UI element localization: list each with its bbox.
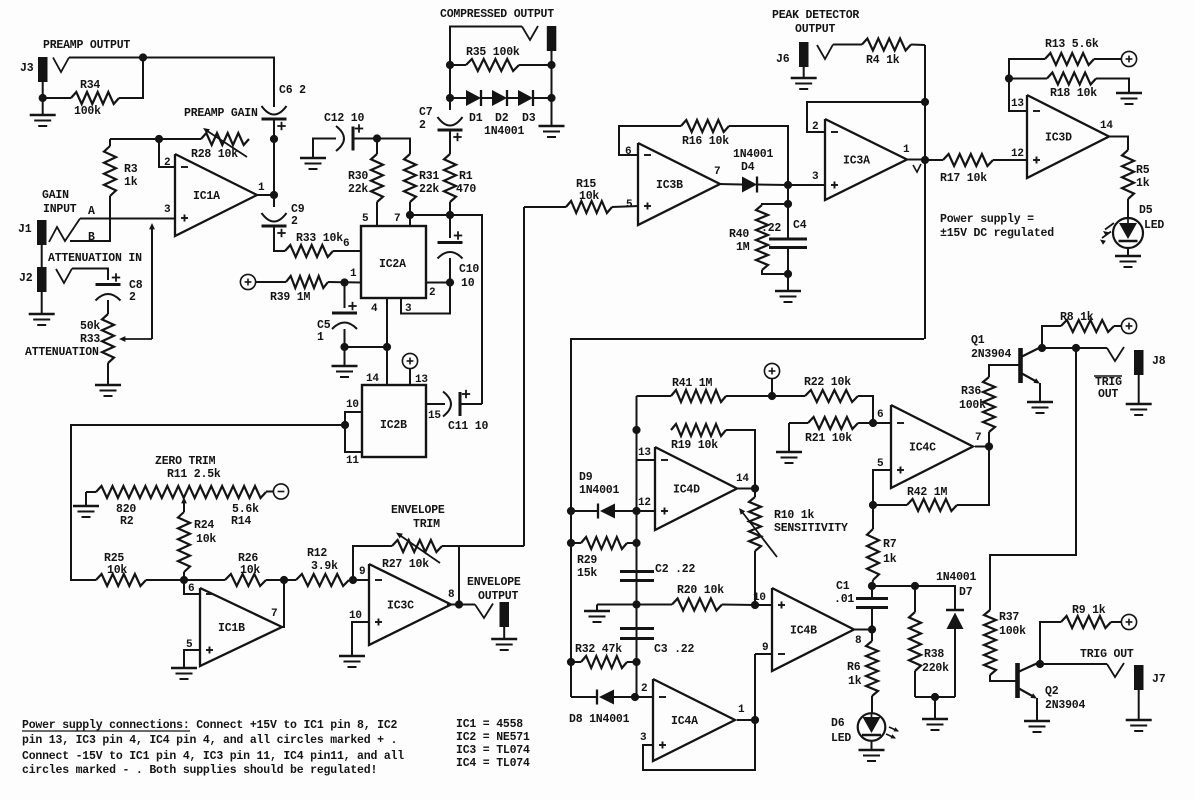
resistor R20 bbox=[637, 604, 673, 606]
svg-text:C6 2: C6 2 bbox=[279, 84, 306, 97]
svg-text:R10 1k: R10 1k bbox=[774, 509, 815, 522]
ground below C5 bbox=[344, 347, 346, 366]
svg-text:1: 1 bbox=[258, 182, 265, 194]
ground at C12 bbox=[300, 157, 326, 160]
diode D4 bbox=[742, 177, 757, 193]
svg-text:R41 1M: R41 1M bbox=[672, 377, 713, 390]
wire IC4B pin 9 stub bbox=[755, 653, 772, 655]
junction R35 left bbox=[446, 61, 454, 69]
svg-text:1N4001: 1N4001 bbox=[484, 125, 525, 138]
capacitor C8 bbox=[112, 277, 120, 279]
junction C12/R30 bbox=[373, 134, 381, 142]
wire C5 to ground node bbox=[344, 329, 346, 347]
svg-text:3: 3 bbox=[405, 303, 412, 315]
svg-text:R21 10k: R21 10k bbox=[805, 432, 852, 445]
wire C5 node to pin4 riser bbox=[345, 346, 388, 348]
svg-text:9: 9 bbox=[359, 566, 365, 578]
svg-text:1: 1 bbox=[317, 331, 324, 344]
svg-text:1k: 1k bbox=[1136, 177, 1150, 190]
plug contact at J2 bbox=[56, 269, 72, 284]
resistor R31 bbox=[404, 154, 416, 202]
jack envelope output bbox=[500, 602, 510, 627]
plug contact at J3 bbox=[53, 58, 69, 73]
junction R21/R22/pin6 bbox=[869, 419, 877, 427]
svg-text:±15V DC regulated: ±15V DC regulated bbox=[940, 227, 1054, 240]
resistor R34 bbox=[71, 92, 119, 104]
svg-text:1N4001: 1N4001 bbox=[579, 484, 620, 497]
svg-text:15k: 15k bbox=[577, 567, 597, 580]
svg-text:R7: R7 bbox=[883, 538, 897, 551]
svg-text:TRIG OUT: TRIG OUT bbox=[1080, 648, 1134, 661]
junction feedback/R4 bbox=[921, 98, 929, 106]
svg-text:R20 10k: R20 10k bbox=[677, 584, 724, 597]
svg-text:IC3A: IC3A bbox=[843, 155, 870, 168]
wire IC1B pin 5 to ground bbox=[184, 650, 200, 668]
svg-text:D6: D6 bbox=[831, 717, 845, 730]
wire IC4D pin13 stub bbox=[637, 459, 656, 461]
junction IC1A output bbox=[270, 191, 278, 199]
op-amp IC3A bbox=[825, 119, 907, 200]
resistor R37 bbox=[984, 610, 996, 675]
wire R33 to ground bbox=[107, 363, 109, 385]
svg-text:J8: J8 bbox=[1152, 355, 1166, 368]
svg-text:PREAMP OUTPUT: PREAMP OUTPUT bbox=[43, 39, 130, 52]
svg-text:5: 5 bbox=[877, 458, 884, 470]
svg-text:LED: LED bbox=[831, 732, 851, 745]
wire IC4C output bbox=[975, 446, 989, 448]
capacitor C3 bbox=[620, 627, 654, 630]
jack J2 bbox=[37, 267, 47, 292]
svg-text:R24: R24 bbox=[194, 519, 214, 532]
wire R3 bottom to B input bbox=[70, 196, 110, 241]
resistor R32 bbox=[581, 656, 627, 668]
svg-text:R39 1M: R39 1M bbox=[270, 291, 311, 304]
capacitor C1 bbox=[856, 597, 888, 600]
svg-text:ZERO TRIM: ZERO TRIM bbox=[155, 455, 216, 468]
power circle at R39 bbox=[240, 274, 255, 289]
svg-text:R1: R1 bbox=[459, 170, 473, 183]
svg-text:OUT: OUT bbox=[1098, 388, 1118, 401]
junction R3/R28/pin2 bbox=[155, 135, 163, 143]
diode D7 bbox=[946, 609, 964, 612]
svg-text:IC1 = 4558: IC1 = 4558 bbox=[456, 718, 523, 731]
wire J3 stem to R34 node bbox=[42, 82, 44, 98]
svg-text:10k: 10k bbox=[579, 190, 599, 203]
svg-text:7: 7 bbox=[394, 213, 400, 225]
potentiometer R33 50k bbox=[102, 314, 114, 363]
wire trig out 2 bbox=[1040, 663, 1107, 665]
svg-text:14: 14 bbox=[366, 373, 379, 385]
resistor R19 bbox=[671, 424, 726, 436]
svg-text:5: 5 bbox=[626, 199, 633, 211]
svg-text:IC1A: IC1A bbox=[193, 190, 220, 203]
wire R21 to ground bbox=[788, 423, 790, 452]
wire J1 to J2 bbox=[41, 245, 43, 267]
wire IC2B pin 11 loop bbox=[345, 425, 362, 452]
wire to envelope output jack bbox=[459, 604, 475, 606]
wire IC3D output bbox=[1109, 137, 1128, 151]
wire C1 node to D7 bbox=[872, 586, 955, 610]
svg-text:IC4D: IC4D bbox=[673, 484, 700, 497]
wire R33b to IC2A pin 6 bbox=[333, 250, 361, 252]
wire Q2 collector node bbox=[1039, 662, 1041, 664]
junction R24/R25/R26/pin6 bbox=[180, 576, 188, 584]
wire peak rail horizontal bbox=[571, 339, 924, 697]
svg-text:R33 10k: R33 10k bbox=[296, 232, 343, 245]
junction R38 top bbox=[911, 582, 919, 590]
wire IC4C pin5 loop bbox=[873, 470, 891, 505]
svg-text:IC3D: IC3D bbox=[1045, 132, 1072, 145]
junction D8 / IC4A pin2 bbox=[631, 693, 639, 701]
svg-text:A: A bbox=[88, 205, 95, 218]
junction trig riser bbox=[1072, 344, 1080, 352]
wire R1 bottom bbox=[449, 202, 451, 215]
svg-text:D5: D5 bbox=[1139, 204, 1153, 217]
svg-text:R2: R2 bbox=[120, 515, 134, 528]
wire IC4A output stub bbox=[737, 719, 755, 721]
junction pins 10/11 bbox=[341, 421, 349, 429]
resistor R5 bbox=[1122, 150, 1134, 199]
svg-text:PREAMP GAIN: PREAMP GAIN bbox=[184, 107, 258, 120]
wire D4 node to IC3A pin 3 bbox=[788, 184, 825, 186]
light arrows at D6 bbox=[886, 734, 895, 738]
wire IC2A pin 4 to IC2B pin 14 bbox=[386, 298, 388, 385]
svg-text:3: 3 bbox=[640, 732, 647, 744]
wire envelope node riser bbox=[523, 207, 525, 546]
resistor R15 bbox=[524, 206, 566, 208]
svg-text:470: 470 bbox=[456, 183, 476, 196]
wire R30 to IC2A pin 5 bbox=[376, 202, 378, 226]
svg-text:10: 10 bbox=[753, 592, 766, 604]
svg-text:R29: R29 bbox=[577, 554, 597, 567]
svg-text:C7: C7 bbox=[419, 106, 433, 119]
resistor R7 bbox=[872, 505, 874, 529]
svg-text:J1: J1 bbox=[18, 223, 32, 236]
svg-text:8: 8 bbox=[448, 589, 455, 601]
svg-text:1: 1 bbox=[903, 144, 910, 156]
resistor R12 bbox=[284, 579, 296, 581]
wire IC2A pin 3 loop bbox=[401, 283, 450, 314]
ground below R38/D7 bbox=[934, 697, 936, 719]
svg-text:R11 2.5k: R11 2.5k bbox=[167, 468, 221, 481]
jack J3 bbox=[38, 57, 48, 82]
svg-text:R19 10k: R19 10k bbox=[671, 439, 718, 452]
svg-text:R6: R6 bbox=[847, 661, 861, 674]
ground below J2 bbox=[29, 313, 55, 316]
resistor R39 bbox=[286, 276, 328, 288]
svg-text:15: 15 bbox=[428, 410, 441, 422]
wire left column vertical bbox=[636, 396, 638, 697]
ground at IC1B pin5 bbox=[171, 667, 197, 670]
plug contact compressed output bbox=[522, 26, 538, 40]
svg-text:13: 13 bbox=[415, 374, 428, 386]
svg-text:10k: 10k bbox=[107, 564, 127, 577]
wire C10 to pin2 node bbox=[449, 258, 451, 283]
wire input A to IC1A pin 3 bbox=[80, 218, 175, 220]
junction diode string right bbox=[547, 94, 555, 102]
ground below J8 bbox=[1126, 403, 1152, 406]
svg-text:Connect -15V to IC1 pin 4, IC3: Connect -15V to IC1 pin 4, IC3 pin 11, I… bbox=[22, 750, 404, 763]
junction Q2 collector bbox=[1036, 660, 1044, 668]
svg-text:220k: 220k bbox=[922, 662, 949, 675]
resistor R35 bbox=[466, 59, 519, 71]
svg-text:IC3C: IC3C bbox=[387, 600, 414, 613]
resistor R26 bbox=[184, 579, 225, 581]
junction Q1 collector bbox=[1038, 344, 1046, 352]
wire R30 top bbox=[376, 139, 378, 155]
svg-text:R42 1M: R42 1M bbox=[907, 486, 948, 499]
wire preamp output rail bbox=[69, 58, 274, 108]
transistor Q2 2N3904 bbox=[1015, 663, 1020, 698]
junction IC4A output bbox=[751, 716, 759, 724]
wire R10 to pin10 node bbox=[754, 551, 756, 605]
junction pin2/C10 bbox=[446, 278, 454, 286]
svg-text:R8 1k: R8 1k bbox=[1060, 311, 1094, 324]
svg-text:50k: 50k bbox=[80, 320, 100, 333]
svg-text:9: 9 bbox=[762, 642, 768, 654]
wire IC3A output node bbox=[908, 159, 925, 161]
svg-text:.22: .22 bbox=[761, 222, 781, 235]
wire IC3C output bbox=[447, 604, 459, 606]
svg-text:1k: 1k bbox=[848, 675, 862, 688]
svg-text:R31: R31 bbox=[419, 170, 439, 183]
svg-text:C1: C1 bbox=[836, 580, 850, 593]
svg-text:100k: 100k bbox=[74, 105, 101, 118]
svg-text:Power supply =: Power supply = bbox=[940, 213, 1034, 226]
svg-text:10k: 10k bbox=[240, 564, 260, 577]
resistor R38 bbox=[914, 586, 916, 612]
svg-text:J2: J2 bbox=[19, 272, 33, 285]
capacitor C12 bbox=[355, 128, 363, 130]
svg-text:ATTENUATION IN: ATTENUATION IN bbox=[48, 252, 142, 265]
power circle at R13 bbox=[1121, 51, 1136, 66]
svg-text:2: 2 bbox=[129, 291, 136, 304]
LED D6 bbox=[858, 713, 886, 741]
svg-text:Q1: Q1 bbox=[971, 334, 985, 347]
svg-text:IC4 = TL074: IC4 = TL074 bbox=[456, 757, 530, 770]
svg-text:PEAK DETECTOR: PEAK DETECTOR bbox=[772, 9, 859, 22]
resistor R17 bbox=[925, 159, 943, 161]
wire IC4D pin12 stub bbox=[637, 510, 656, 512]
op-amp IC3C bbox=[369, 564, 451, 645]
svg-text:OUTPUT: OUTPUT bbox=[478, 590, 519, 603]
plug contact at J1 bbox=[49, 219, 80, 243]
resistor R40 bbox=[762, 204, 788, 205]
svg-text:IC2B: IC2B bbox=[380, 419, 407, 432]
svg-text:R38: R38 bbox=[924, 648, 944, 661]
diode D2 bbox=[481, 97, 492, 99]
wire C8 to R33 pot bbox=[107, 300, 109, 314]
wire feedback to IC1B input rail bbox=[71, 425, 345, 580]
junction R38/D7 ground bbox=[931, 693, 939, 701]
light arrows at D5 bbox=[1105, 223, 1114, 230]
svg-text:R37: R37 bbox=[999, 611, 1019, 624]
svg-text:1: 1 bbox=[738, 704, 745, 716]
ground below Q1 bbox=[1027, 401, 1053, 404]
capacitor C9 bbox=[262, 213, 287, 222]
wire IC3B output to D4 bbox=[719, 183, 742, 186]
ground below Q2 bbox=[1024, 720, 1050, 723]
wire R28 left to node bbox=[159, 138, 201, 140]
svg-text:22k: 22k bbox=[419, 183, 439, 196]
svg-text:14: 14 bbox=[736, 473, 749, 485]
wire IC2A pin 2 bbox=[426, 282, 450, 284]
minus circle at R11 bbox=[273, 484, 288, 499]
wire IC3D pin13 loop bbox=[1009, 59, 1045, 111]
wire D6 to ground bbox=[871, 741, 873, 751]
resistor R16 bbox=[681, 120, 729, 132]
potentiometer R28 bbox=[201, 133, 249, 145]
svg-text:TRIM: TRIM bbox=[413, 518, 440, 531]
svg-text:1: 1 bbox=[350, 268, 357, 280]
svg-text:R9 1k: R9 1k bbox=[1072, 604, 1106, 617]
junction D9 right bbox=[632, 507, 640, 515]
resistor R42 bbox=[873, 504, 907, 506]
op-amp IC3D bbox=[1027, 95, 1109, 178]
wire C6 to node A1 bbox=[273, 119, 275, 139]
svg-text:IC2A: IC2A bbox=[379, 258, 406, 271]
svg-text:2: 2 bbox=[641, 683, 647, 695]
wire J8 to ground bbox=[1138, 375, 1140, 404]
junction J3/R34 bbox=[39, 94, 47, 102]
svg-text:C3 .22: C3 .22 bbox=[654, 643, 695, 656]
junction R42/R7/pin5 bbox=[869, 501, 877, 509]
plug contact at J7 bbox=[1107, 663, 1124, 677]
ground below R18 bbox=[1116, 92, 1142, 95]
resistor R29 bbox=[581, 537, 627, 549]
svg-text:1k: 1k bbox=[124, 176, 138, 189]
wire IC4D output bbox=[737, 488, 755, 490]
resistor R9 bbox=[1040, 622, 1061, 664]
op-amp IC1B bbox=[200, 588, 282, 666]
junction R29 right bbox=[632, 539, 640, 547]
LED D5 bbox=[1113, 218, 1143, 248]
svg-text:R22 10k: R22 10k bbox=[804, 376, 851, 389]
wire IC1B output loop bbox=[281, 580, 284, 627]
power circle at IC2B pin 13 bbox=[402, 353, 417, 368]
svg-text:Q2: Q2 bbox=[1045, 685, 1059, 698]
resistor R3 bbox=[104, 146, 116, 196]
svg-text:IC1B: IC1B bbox=[218, 622, 245, 635]
diode D1 bbox=[450, 97, 466, 99]
capacitor C4 bbox=[787, 204, 789, 239]
svg-text:R13 5.6k: R13 5.6k bbox=[1045, 38, 1099, 51]
svg-text:1N4001: 1N4001 bbox=[936, 571, 977, 584]
svg-text:IC2 = NE571: IC2 = NE571 bbox=[456, 731, 530, 744]
junction C3 bottom rail bbox=[632, 658, 640, 666]
junction R32 left bbox=[567, 658, 575, 666]
ground below compressed output jack bbox=[539, 125, 565, 128]
wire pin 13 bbox=[409, 368, 411, 385]
junction R20/pin10 bbox=[751, 601, 759, 609]
wire J2 contact to C8 bbox=[72, 269, 108, 281]
svg-text:3: 3 bbox=[164, 204, 171, 216]
svg-text:10: 10 bbox=[349, 610, 362, 622]
svg-text:13: 13 bbox=[638, 447, 651, 459]
wire J7 to ground bbox=[1138, 690, 1140, 720]
wire IC4A feedback loop to pin 3 bbox=[643, 654, 755, 770]
svg-text:R35 100k: R35 100k bbox=[466, 46, 520, 59]
svg-text:D4: D4 bbox=[741, 161, 755, 174]
svg-text:2: 2 bbox=[429, 287, 435, 299]
resistor R22 bbox=[772, 395, 805, 397]
junction R19 left bbox=[632, 426, 640, 434]
ground below D6 bbox=[859, 749, 885, 752]
svg-text:D3: D3 bbox=[522, 112, 536, 125]
svg-text:6: 6 bbox=[877, 409, 883, 421]
svg-text:IC4B: IC4B bbox=[790, 625, 817, 638]
ground at IC3C pin10 bbox=[339, 655, 365, 658]
svg-text:D9: D9 bbox=[579, 471, 593, 484]
svg-text:R14: R14 bbox=[231, 515, 251, 528]
wire C9 to R33b bbox=[274, 226, 285, 251]
svg-text:D7: D7 bbox=[959, 586, 973, 599]
jack J8 bbox=[1134, 350, 1144, 375]
resistor R36 bbox=[988, 432, 990, 447]
junction C6/R28 bbox=[270, 135, 278, 143]
diode D8 bbox=[571, 696, 597, 698]
capacitor C10 bbox=[449, 215, 451, 238]
arrow marker at IC3A output bbox=[913, 164, 921, 172]
junction D9 left bbox=[567, 507, 575, 515]
junction R29 left bbox=[567, 539, 575, 547]
svg-text:7: 7 bbox=[975, 432, 981, 444]
resistor R24 with wiper arrow bbox=[183, 572, 185, 580]
capacitor C7 bbox=[438, 117, 463, 126]
resistor R1 bbox=[444, 154, 456, 202]
capacitor C5 bbox=[344, 283, 346, 309]
svg-text:10: 10 bbox=[461, 277, 475, 290]
svg-text:5: 5 bbox=[362, 213, 369, 225]
svg-text:3: 3 bbox=[812, 171, 819, 183]
jack compressed output bbox=[547, 26, 557, 51]
wire node rail y215 to C11 riser bbox=[410, 215, 482, 404]
junction R12/IC3C pin9 bbox=[349, 576, 357, 584]
diode D3 bbox=[507, 97, 518, 99]
ground below D5 bbox=[1115, 255, 1141, 258]
wire C12 to ground bbox=[313, 139, 336, 159]
svg-text:2: 2 bbox=[291, 215, 298, 228]
svg-text:C10: C10 bbox=[459, 263, 479, 276]
ground at C2/C3 arm bbox=[584, 610, 610, 613]
svg-text:11: 11 bbox=[346, 455, 359, 467]
wire Q1 emitter to ground bbox=[1039, 383, 1041, 402]
svg-text:J6: J6 bbox=[776, 53, 790, 66]
svg-text:10: 10 bbox=[346, 399, 359, 411]
svg-text:3.9k: 3.9k bbox=[311, 560, 338, 573]
svg-text:R36: R36 bbox=[961, 385, 981, 398]
jack J7 bbox=[1134, 665, 1144, 690]
wire IC1B pin 6 loop bbox=[184, 580, 200, 594]
svg-text:12: 12 bbox=[638, 497, 651, 509]
resistor R4 bbox=[833, 44, 862, 46]
svg-text:22k: 22k bbox=[348, 183, 368, 196]
wire jack to R35/diodes/ground bbox=[551, 51, 553, 126]
wire IC4A pin2 stub bbox=[635, 696, 653, 698]
potentiometer R27 bbox=[392, 540, 442, 552]
op-amp IC3B bbox=[638, 143, 720, 225]
ground below R21 bbox=[776, 451, 802, 454]
resistor R8 bbox=[1042, 326, 1061, 348]
svg-text:2: 2 bbox=[419, 119, 426, 132]
svg-text:C11 10: C11 10 bbox=[448, 420, 489, 433]
svg-text:ENVELOPE: ENVELOPE bbox=[391, 504, 445, 517]
op-amp IC1A bbox=[175, 154, 257, 236]
junction C4 bottom bbox=[784, 270, 792, 278]
junction IC4C output/R36/R42 bbox=[985, 442, 993, 450]
svg-text:1M: 1M bbox=[736, 241, 750, 254]
svg-text:R40: R40 bbox=[729, 228, 749, 241]
